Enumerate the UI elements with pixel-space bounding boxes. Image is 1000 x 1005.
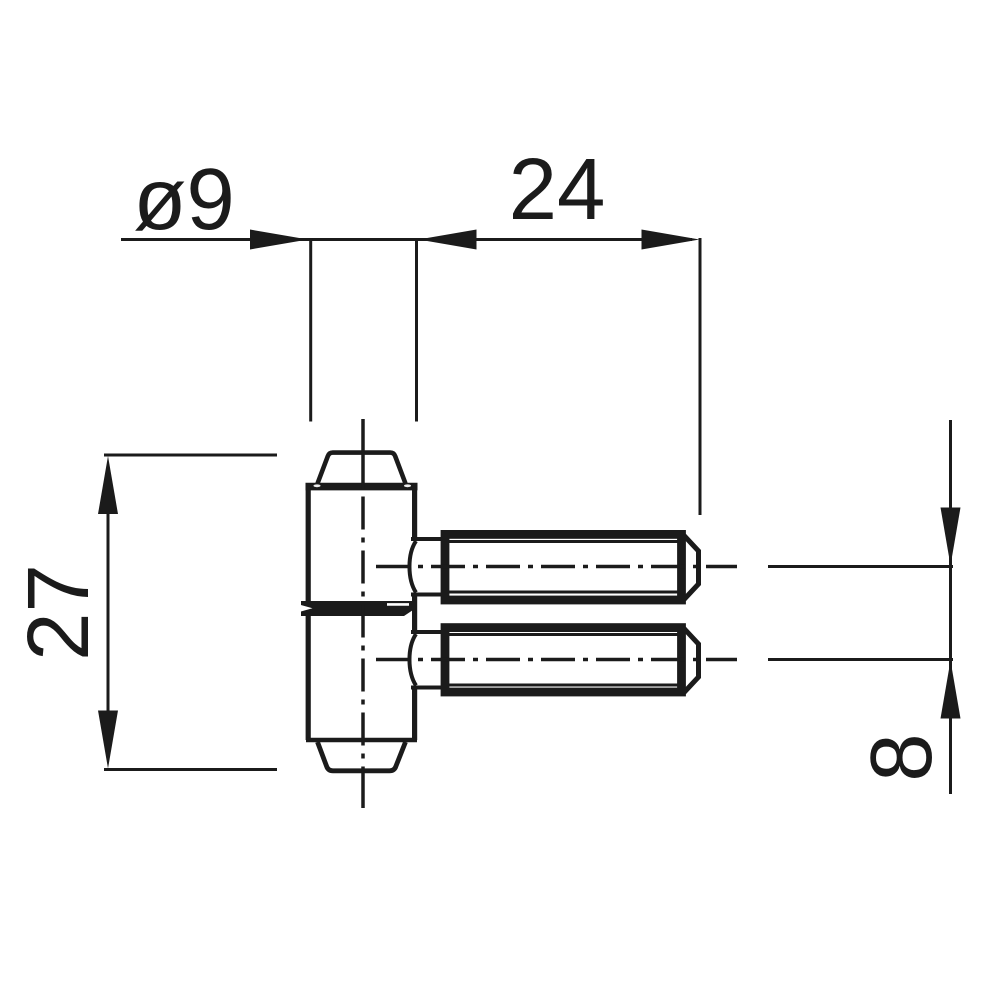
27 dimension line xyxy=(107,466,110,758)
barrel bottom edge xyxy=(306,738,417,743)
svg-text:24: 24 xyxy=(509,141,606,238)
barrel vertical centerline dashed middle xyxy=(361,497,365,769)
barrel top cap xyxy=(318,453,406,484)
8 extension line upper xyxy=(768,565,953,568)
upper pin thread line bottom xyxy=(448,591,678,594)
lower pin tip xyxy=(684,629,699,693)
barrel vertical centerline solid bottom xyxy=(361,768,365,808)
barrel top rim band xyxy=(306,483,418,491)
dia9 dimension line xyxy=(121,238,692,241)
8 extension line lower xyxy=(768,658,953,661)
lower pin neck fillet arc xyxy=(409,634,416,686)
barrel vertical centerline solid top xyxy=(361,419,365,489)
24 left arrow xyxy=(419,230,477,250)
barrel right side lower segment xyxy=(412,689,417,741)
junction band left notch xyxy=(300,605,313,612)
lower pin neck bottom line xyxy=(411,686,448,690)
dim extension line shared x417 xyxy=(415,238,418,422)
upper pin tip xyxy=(684,536,699,600)
svg-text:27: 27 xyxy=(10,564,107,661)
barrel left side xyxy=(306,485,311,740)
dia9 extension line left xyxy=(309,238,312,422)
27 extension line bottom xyxy=(104,768,277,771)
rim band left pinhole xyxy=(313,484,320,487)
upper pin body xyxy=(445,534,682,600)
svg-text:ø9: ø9 xyxy=(133,151,235,248)
lower pin thread line bottom xyxy=(448,684,678,687)
lower pin neck top line xyxy=(411,630,448,634)
24 right arrow xyxy=(642,230,700,250)
dia9 arrow xyxy=(250,230,308,250)
8 bottom arrow xyxy=(941,661,961,719)
upper pin centerline xyxy=(376,565,737,569)
barrel bottom cap xyxy=(318,742,406,771)
barrel right side middle segment xyxy=(412,596,417,631)
junction band right sliver xyxy=(387,603,409,606)
27 bottom arrow xyxy=(98,711,118,769)
24 extension line right xyxy=(699,238,702,515)
lower pin thread line top xyxy=(448,633,678,636)
upper pin neck top line xyxy=(411,537,448,541)
upper pin thread line top xyxy=(448,540,678,543)
lower pin centerline xyxy=(376,658,737,662)
barrel right side upper segment xyxy=(412,485,417,538)
27 extension line top xyxy=(104,454,277,457)
svg-text:8: 8 xyxy=(853,733,950,781)
8 dimension line xyxy=(949,420,952,794)
8 top arrow xyxy=(941,508,961,566)
barrel junction band xyxy=(301,601,416,616)
27 top arrow xyxy=(98,456,118,514)
upper pin neck fillet arc xyxy=(409,541,416,593)
rim band right pinhole xyxy=(404,484,411,487)
upper pin neck bottom line xyxy=(411,593,448,597)
lower pin body xyxy=(445,628,682,692)
